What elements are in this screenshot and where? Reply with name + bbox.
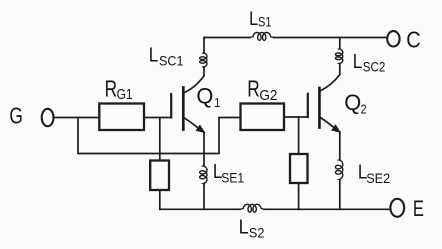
svg-text:SE2: SE2 [366, 170, 390, 186]
svg-text:R: R [105, 76, 118, 102]
svg-text:Q: Q [196, 83, 213, 108]
resistor RGE1 bottom lead [159, 190, 161, 209]
inductor LSE1 [203, 132, 205, 165]
svg-text:R: R [247, 76, 259, 102]
svg-text:SC1: SC1 [159, 52, 184, 68]
terminal E [390, 199, 404, 217]
inductor LS1 [250, 33, 274, 41]
svg-text:SE1: SE1 [221, 170, 244, 186]
resistor RG1 [99, 104, 144, 131]
label RG2 [247, 76, 277, 104]
wire G branch to RG2 (routing under RG1) [78, 118, 241, 154]
terminal C [387, 31, 399, 46]
transistor Q2 [308, 75, 340, 133]
label LS1 [249, 9, 271, 30]
svg-text:SC2: SC2 [363, 59, 386, 75]
svg-text:L: L [249, 9, 258, 30]
resistor RGE2 [290, 154, 308, 183]
label Q1 [196, 83, 220, 110]
svg-text:G: G [9, 103, 23, 129]
label LSE1 [213, 161, 244, 186]
label Q2 [344, 90, 366, 116]
svg-text:2: 2 [361, 102, 367, 117]
transistor Q1 [171, 76, 204, 133]
resistor RGE2 top lead [298, 117, 300, 154]
svg-text:L: L [353, 51, 363, 73]
svg-text:S2: S2 [249, 224, 265, 240]
svg-text:S1: S1 [258, 15, 272, 30]
terminal G [42, 109, 54, 126]
label LSC1 [149, 45, 184, 69]
svg-text:G2: G2 [259, 87, 277, 104]
svg-text:L: L [239, 217, 249, 239]
inductor LSE2 [339, 132, 341, 159]
wire top rail left segment [204, 37, 250, 39]
wire top rail right segment [274, 37, 387, 39]
inductor LSC1 [203, 38, 205, 53]
label LSE2 [358, 162, 390, 186]
wire bottom rail left segment [160, 208, 240, 210]
label RG1 [105, 76, 133, 104]
label LS2 [239, 217, 265, 241]
resistor RGE1 top lead [159, 118, 161, 161]
svg-text:E: E [413, 196, 424, 221]
svg-text:Q: Q [344, 90, 361, 115]
wire bottom rail right segment [264, 208, 390, 210]
svg-text:C: C [406, 27, 421, 53]
wire RG1 to Q1 gate [144, 117, 170, 119]
inductor LS2 [240, 204, 264, 212]
inductor LSC2 [339, 38, 341, 49]
resistor RG2 [241, 104, 285, 131]
svg-text:1: 1 [214, 95, 220, 110]
wire RG2 to Q2 gate [284, 116, 307, 118]
wire G to RG1 [54, 117, 100, 119]
svg-text:L: L [149, 45, 159, 67]
resistor RGE1 [150, 161, 169, 191]
svg-text:G1: G1 [117, 86, 133, 103]
label LSC2 [353, 51, 386, 75]
resistor RGE2 bottom lead [298, 183, 300, 209]
